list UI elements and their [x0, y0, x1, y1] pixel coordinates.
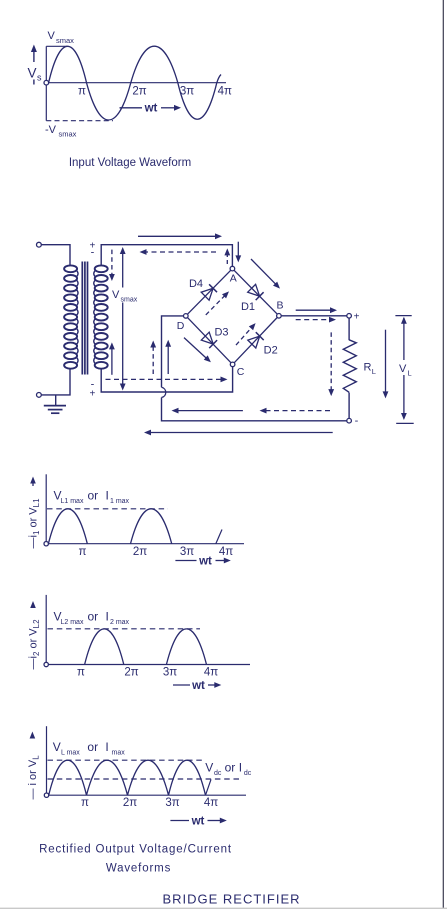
wire neg-Vsmax-dashed-level	[46, 120, 113, 122]
wire plot3-hump3	[128, 760, 169, 795]
wire plot3-hump1	[49, 760, 87, 795]
svg-text:-V: -V	[45, 124, 57, 136]
svg-text:Rectified Output Voltage/Curre: Rectified Output Voltage/Current	[39, 844, 232, 856]
wire dashed-up-arrow-at-A	[226, 254, 228, 264]
svg-text:3π: 3π	[180, 86, 194, 98]
diode D1	[248, 284, 260, 296]
wire Vsmax-level	[46, 45, 67, 47]
wire top-dashed-left-arrow	[145, 251, 216, 253]
wire dashed-arrow-inside-D2	[236, 327, 252, 345]
wire D-down-to-bottom	[162, 398, 347, 421]
svg-text:or: or	[87, 740, 98, 754]
svg-text:D4: D4	[189, 278, 203, 290]
svg-text:4π: 4π	[218, 86, 232, 98]
svg-text:or: or	[225, 761, 236, 775]
svg-text:or: or	[88, 489, 99, 503]
svg-text:I: I	[106, 610, 109, 624]
svg-text:3π: 3π	[180, 546, 194, 558]
wire RL-bottom	[348, 393, 350, 419]
wire primary-top	[41, 245, 70, 266]
svg-text:s: s	[37, 73, 42, 83]
wire plot3-rising-slash	[206, 779, 212, 795]
node right-border	[442, 0, 444, 908]
svg-text:π: π	[78, 86, 86, 98]
wire plot2-hump1	[85, 629, 124, 664]
node bottom-rule	[0, 907, 447, 909]
svg-text:wt: wt	[191, 680, 205, 692]
svg-text:C: C	[237, 366, 245, 378]
svg-text:Input Voltage Waveform: Input Voltage Waveform	[69, 157, 191, 169]
svg-text:V: V	[28, 66, 37, 81]
svg-text:V: V	[399, 363, 407, 375]
svg-text:Waveforms: Waveforms	[106, 863, 171, 875]
resistor RL	[343, 340, 356, 393]
wire dashed-left-arrow-return	[265, 410, 330, 412]
wire secondary-top-to-A	[101, 245, 232, 267]
svg-text:3π: 3π	[165, 797, 179, 809]
node primary-terminal-top	[37, 242, 42, 247]
svg-text:BRIDGE RECTIFIER: BRIDGE RECTIFIER	[162, 892, 300, 907]
node wt-label-top	[120, 107, 143, 109]
wire plot3-dashed-vdc-line	[48, 778, 240, 780]
wire solid-down-arrow-at-A	[237, 242, 239, 257]
node plot3-wt	[170, 820, 189, 822]
svg-text:4π: 4π	[219, 546, 233, 558]
svg-text:2π: 2π	[124, 667, 138, 679]
node plot2-wt	[173, 684, 190, 686]
svg-text:dc: dc	[244, 770, 252, 777]
svg-text:V: V	[53, 740, 61, 754]
node B	[277, 314, 282, 319]
node Vs-axis-horizontal	[49, 82, 226, 84]
diode D2	[248, 336, 260, 348]
wire bridge-D-A	[188, 270, 231, 314]
svg-text:wt: wt	[144, 103, 158, 115]
svg-text:smax: smax	[121, 297, 138, 304]
wire input-sine	[49, 46, 221, 120]
wire solid-current-up-arrow-left	[111, 348, 113, 375]
svg-text:2π: 2π	[133, 546, 147, 558]
svg-text:I: I	[106, 489, 109, 503]
diode D4	[201, 288, 213, 300]
svg-text:π: π	[79, 546, 87, 558]
wire hop-over	[162, 387, 166, 397]
svg-text:4π: 4π	[204, 667, 218, 679]
node VL-dim-label	[397, 360, 413, 375]
node plot1-wt	[175, 560, 196, 562]
svg-text:π: π	[77, 667, 85, 679]
wire solid-load-current-down-arrow	[385, 330, 387, 393]
svg-text:π: π	[81, 797, 89, 809]
svg-text:D2: D2	[264, 345, 278, 357]
wire dashed-load-current-down-arrow	[330, 332, 332, 390]
node plot3-xaxis	[49, 794, 246, 796]
wire dashed-right-arrow-lower	[106, 378, 223, 380]
svg-text:2π: 2π	[123, 797, 137, 809]
wire secondary-bottom-to-C	[101, 367, 232, 392]
svg-text:wt: wt	[198, 555, 212, 567]
svg-text:L: L	[408, 369, 412, 378]
wire top-solid-right-arrow	[138, 235, 217, 237]
svg-text:D1: D1	[241, 301, 255, 313]
node minus-terminal	[347, 418, 352, 423]
wire dashed-arrow-inside-D4	[206, 295, 225, 315]
transformer primary-winding	[64, 265, 77, 272]
node Vs-axis-arrow	[33, 50, 35, 62]
node VL-dimension	[395, 315, 411, 317]
svg-text:-: -	[91, 247, 95, 259]
wire solid-arrow-outside-DC	[184, 338, 207, 359]
node A	[230, 266, 235, 271]
wire plot3-dashed-peak-line	[48, 759, 207, 761]
wire plot1-dashed-peak-line	[47, 508, 168, 510]
wire solid-left-arrow-return	[177, 410, 243, 412]
svg-text:dc: dc	[214, 770, 222, 777]
wire bridge-D-C	[188, 318, 231, 363]
node plot2-yaxis	[45, 595, 47, 665]
node plot2-origin	[44, 662, 48, 666]
wire solid-arrow-outside-AB	[251, 259, 276, 285]
node plot3-origin	[44, 793, 48, 797]
wire bridge-A-B	[234, 270, 277, 314]
diode D3	[201, 332, 213, 344]
node plot1-origin	[44, 542, 48, 546]
svg-text:—i2 or VL2: —i2 or VL2	[28, 619, 42, 670]
wire plot1-rising-slash	[216, 530, 222, 544]
svg-text:V: V	[48, 30, 56, 42]
node plot2-xaxis	[48, 664, 250, 666]
svg-text:I: I	[105, 740, 108, 754]
node primary-terminal-bottom	[37, 393, 42, 398]
svg-text:max: max	[112, 750, 126, 757]
wire plot3-hump2	[87, 760, 128, 795]
node origin-top-plot	[44, 80, 49, 85]
svg-text:V: V	[112, 289, 120, 301]
svg-text:+: +	[354, 312, 360, 323]
svg-text:wt: wt	[191, 815, 205, 827]
svg-text:2π: 2π	[132, 86, 146, 98]
node plot3-vdc-label	[204, 759, 253, 775]
wire plot2-hump2	[167, 629, 207, 664]
node D	[184, 314, 189, 319]
svg-text:L: L	[372, 367, 376, 376]
svg-text:smax: smax	[56, 36, 74, 45]
svg-text:L1 max: L1 max	[61, 498, 84, 505]
wire dashed-current-down-arrow	[111, 250, 113, 276]
node plot1-yaxis	[45, 474, 47, 543]
wire bottom-long-left-arrow	[150, 432, 333, 434]
svg-text:1 max: 1 max	[110, 498, 130, 505]
svg-text:L2 max: L2 max	[61, 619, 84, 626]
svg-text:— i or VL: — i or VL	[27, 755, 41, 800]
wire plot3-hump4	[169, 760, 206, 795]
wire D-left-and-down	[162, 316, 184, 387]
svg-text:or: or	[88, 610, 99, 624]
svg-text:B: B	[276, 300, 283, 312]
node Vsmax-dimension-arrow	[122, 250, 124, 388]
svg-text:D: D	[177, 320, 185, 332]
wire plot1-hump2	[131, 509, 172, 544]
wire dashed-right-arrow-below-B	[296, 319, 331, 321]
node C	[230, 362, 235, 367]
wire plot2-dashed-peak-line	[48, 628, 201, 630]
svg-text:D3: D3	[214, 327, 228, 339]
svg-text:I: I	[239, 761, 242, 775]
svg-text:3π: 3π	[163, 667, 177, 679]
wire B-to-plus-terminal	[281, 315, 347, 317]
transformer secondary-winding	[95, 265, 108, 272]
node plus-terminal	[347, 314, 352, 319]
wire bridge-C-B	[234, 318, 277, 363]
node Vs-axis-vertical	[45, 46, 47, 120]
node plot1-xaxis	[48, 543, 244, 545]
svg-text:4π: 4π	[204, 797, 218, 809]
svg-text:—i1 or VL1: —i1 or VL1	[28, 498, 42, 549]
node plot3-yaxis	[46, 726, 48, 795]
transformer core	[81, 262, 83, 375]
node Vsmax-circuit-label	[112, 288, 136, 303]
svg-text:L max: L max	[61, 750, 80, 757]
svg-text:R: R	[364, 362, 372, 374]
wire dashed-current-up-arrow-mid	[152, 346, 154, 374]
svg-text:smax: smax	[59, 130, 77, 139]
wire solid-right-arrow-above-B	[296, 309, 332, 311]
wire plot1-hump1	[48, 509, 87, 544]
svg-text:-: -	[355, 415, 359, 427]
svg-text:A: A	[230, 273, 237, 285]
wire RL-top	[348, 318, 350, 340]
svg-text:2 max: 2 max	[110, 619, 130, 626]
wire solid-current-up-arrow-mid	[167, 345, 169, 374]
svg-text:+: +	[89, 389, 95, 400]
ground	[55, 395, 57, 406]
svg-text:V: V	[205, 761, 213, 775]
wire primary-bottom	[41, 368, 70, 395]
